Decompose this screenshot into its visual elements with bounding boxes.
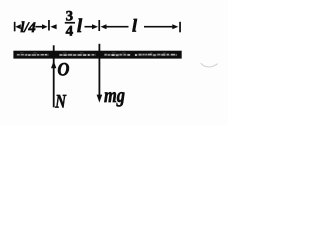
svg-text:4: 4 xyxy=(66,23,74,39)
svg-text:N: N xyxy=(54,91,66,112)
svg-text:l/4: l/4 xyxy=(20,20,35,36)
svg-text:l: l xyxy=(77,16,83,37)
svg-text:l: l xyxy=(132,16,137,36)
svg-text:mg: mg xyxy=(104,85,125,107)
svg-text:O: O xyxy=(57,58,69,79)
svg-text:3: 3 xyxy=(66,9,74,25)
